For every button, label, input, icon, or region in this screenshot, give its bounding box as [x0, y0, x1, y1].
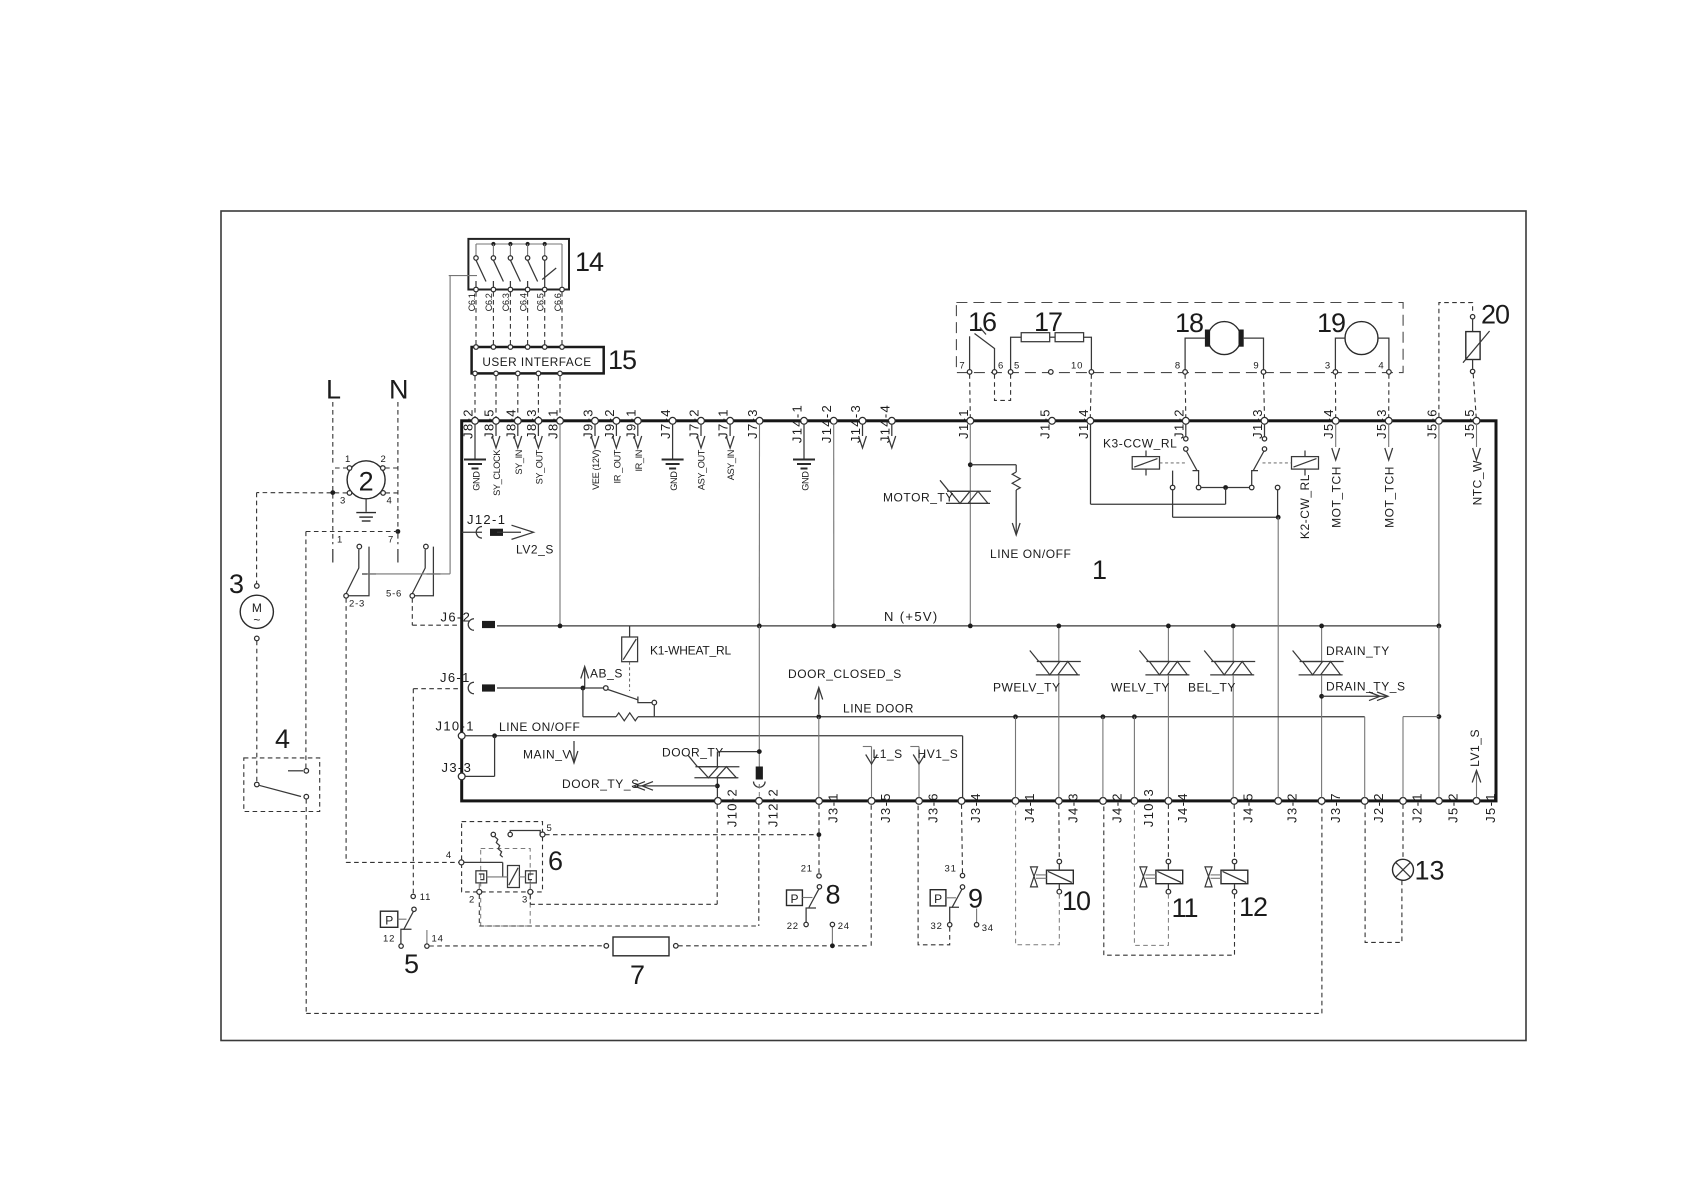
- wire pin4 to N: [385, 492, 398, 494]
- wire throws to J3-2: [1172, 490, 1174, 518]
- wire J7-3 down: [758, 424, 760, 626]
- signal DOOR_TY_S: [637, 785, 717, 787]
- pump 3 body: [240, 595, 273, 628]
- svg-text:L1_S: L1_S: [873, 747, 903, 761]
- pin 2: [381, 466, 386, 471]
- pin mid of motor unit: [1049, 370, 1054, 375]
- svg-text:C6.1: C6.1: [467, 293, 477, 311]
- wire J4-3 to valve 10: [1058, 804, 1061, 859]
- resistor 7: [604, 944, 609, 949]
- wire pin7 to J1-1: [969, 374, 972, 417]
- wire module pin3 to J10-2: [529, 894, 531, 904]
- wire LINE DOOR to J10-3: [1133, 717, 1135, 798]
- signal IR_IN: [637, 424, 639, 436]
- keyboard bus junction: [508, 242, 512, 246]
- motor unit enclosure: [956, 303, 1403, 373]
- switch 4 lower contact: [304, 794, 309, 799]
- suppressor 2 body: [347, 461, 385, 499]
- triac PWELV_TY: [1058, 626, 1060, 662]
- svg-text:11: 11: [420, 892, 431, 903]
- wire resistor 7 to J3-5 net: [678, 945, 868, 947]
- triac BEL_TY: [1232, 626, 1234, 662]
- svg-text:21: 21: [801, 864, 813, 875]
- svg-text:J4-4: J4-4: [1175, 792, 1190, 823]
- svg-text:3: 3: [340, 496, 346, 507]
- UI top pin: [560, 345, 565, 350]
- wire valve 11 to J10-3: [1134, 804, 1168, 945]
- node N tap: [396, 529, 401, 534]
- key switch S4: [527, 244, 529, 256]
- key switch S3: [509, 244, 511, 256]
- pin 5 of motor unit: [1008, 370, 1013, 375]
- svg-text:C6.5: C6.5: [536, 293, 546, 311]
- svg-text:J1-4: J1-4: [1076, 408, 1091, 439]
- svg-text:31: 31: [945, 864, 957, 875]
- gnd at J14-1: [803, 424, 805, 459]
- svg-text:J1-1: J1-1: [956, 408, 971, 439]
- pin J7-1: [727, 417, 734, 424]
- wire NTC to J5-5: [1473, 374, 1476, 418]
- UI bottom pin: [516, 371, 521, 376]
- svg-text:J9-1: J9-1: [623, 408, 638, 439]
- keyboard pin C6.5: [542, 287, 547, 292]
- contact K3 from J1-2: [1185, 424, 1187, 437]
- svg-text:K3-CCW_RL: K3-CCW_RL: [1103, 437, 1177, 451]
- svg-text:34: 34: [982, 923, 994, 934]
- switch 9 contact 34: [976, 909, 978, 923]
- contact K2 from J1-3: [1264, 424, 1266, 437]
- ground of suppressor 2: [365, 499, 367, 512]
- wire valve 10 to J4-1: [1016, 804, 1060, 945]
- UI top pin: [542, 345, 547, 350]
- pin J8-1: [557, 417, 564, 424]
- wire pin4 to J5-3: [1388, 374, 1390, 417]
- svg-text:J14-3: J14-3: [848, 404, 863, 443]
- pin J5-2: [1436, 798, 1443, 805]
- heater relay parts in 6: [476, 871, 487, 883]
- pin J14-1: [801, 417, 808, 424]
- svg-text:J7-4: J7-4: [658, 408, 673, 439]
- svg-text:J9-3: J9-3: [581, 408, 596, 439]
- switch 8 contact 21: [817, 874, 821, 878]
- UI bottom pin: [536, 371, 541, 376]
- svg-text:GND: GND: [471, 471, 481, 491]
- svg-text:3: 3: [1325, 361, 1331, 372]
- relay coil K1-WHEAT_RL: [629, 626, 631, 637]
- keyboard pin C6.3: [508, 287, 513, 292]
- wire pump to switch 4: [256, 641, 258, 783]
- svg-text:K1-WHEAT_RL: K1-WHEAT_RL: [650, 644, 731, 658]
- svg-text:9: 9: [968, 884, 983, 914]
- signal SY_IN: [517, 424, 519, 436]
- svg-text:P: P: [934, 892, 942, 906]
- signal NTC_W: [1476, 424, 1478, 447]
- keyboard pin C6.2: [491, 287, 496, 292]
- net N +5V: [497, 625, 1439, 627]
- wire J4-4 to valve 11: [1167, 804, 1169, 859]
- signal MOT_TCH J5-3: [1388, 424, 1390, 447]
- N feed stub: [397, 549, 399, 563]
- svg-text:MOT_TCH: MOT_TCH: [1383, 466, 1397, 528]
- signal LV1_S: [1476, 771, 1478, 798]
- svg-text:J8-1: J8-1: [546, 408, 561, 439]
- contact throw right: [1275, 485, 1280, 490]
- wire common to J1-4: [1225, 488, 1227, 505]
- pin J1-5: [1049, 417, 1056, 424]
- signal SY_CLOCK: [495, 424, 497, 436]
- svg-text:J5-4: J5-4: [1321, 408, 1336, 439]
- net LINE ON/OFF: [465, 735, 962, 737]
- svg-text:DOOR_TY: DOOR_TY: [662, 746, 724, 760]
- pin J3-2: [1275, 798, 1282, 805]
- svg-text:2: 2: [380, 454, 386, 465]
- pin J5-5: [1473, 417, 1480, 424]
- svg-text:J7-1: J7-1: [716, 408, 731, 439]
- net LINE DOOR: [654, 716, 1364, 718]
- triac WELV_TY: [1167, 626, 1169, 662]
- svg-text:~: ~: [253, 613, 260, 627]
- wire J3-1 to switch 8: [818, 804, 820, 873]
- pressure switch 5 contact 14: [426, 930, 428, 944]
- svg-text:LV2_S: LV2_S: [516, 543, 554, 557]
- signal arrow J14-3: [862, 424, 864, 436]
- svg-text:P: P: [385, 914, 393, 928]
- svg-text:12: 12: [383, 934, 395, 945]
- signal DOOR_CLOSED_S: [818, 689, 820, 714]
- interlock switch 5-6 contact top: [424, 544, 429, 549]
- pin J8-5: [493, 417, 500, 424]
- signal LV2_S: [497, 531, 521, 533]
- node L tap: [330, 490, 335, 495]
- heater module 6 enclosure: [462, 822, 543, 892]
- pin J8-3: [535, 417, 542, 424]
- switch 8 pressure sensor: [787, 890, 803, 906]
- svg-text:DOOR_CLOSED_S: DOOR_CLOSED_S: [788, 667, 902, 681]
- wires user interface to board J8: [474, 376, 476, 417]
- pin J7-2: [698, 417, 705, 424]
- keyboard block 14 outline: [468, 239, 569, 290]
- svg-text:J6-1: J6-1: [440, 670, 471, 685]
- wire valve 12 to J4-2: [1104, 804, 1235, 955]
- svg-text:GND: GND: [669, 471, 679, 491]
- pin 7 of motor unit: [967, 370, 972, 375]
- svg-text:J8-2: J8-2: [461, 408, 476, 439]
- switch 4 blade: [259, 785, 301, 796]
- pin 1: [347, 466, 352, 471]
- svg-text:C6.2: C6.2: [484, 293, 494, 311]
- key switch S2: [492, 244, 494, 256]
- pin J4-3: [1055, 798, 1062, 805]
- svg-text:J7-2: J7-2: [687, 408, 702, 439]
- svg-text:J3-1: J3-1: [826, 792, 841, 823]
- svg-text:J3-5: J3-5: [878, 792, 893, 823]
- svg-text:SY_IN: SY_IN: [514, 450, 524, 475]
- pin J4-5: [1231, 798, 1238, 805]
- svg-text:22: 22: [787, 921, 799, 932]
- switch 8 blade: [809, 889, 819, 908]
- svg-text:14: 14: [575, 247, 604, 277]
- wire J5-6 to NTC top: [1439, 303, 1473, 418]
- svg-text:J8-4: J8-4: [503, 408, 518, 439]
- wire LINE DOOR to J4-2: [1102, 717, 1104, 798]
- wire J1-1 down to N: [969, 424, 971, 626]
- wire pin3 to motor feed: [257, 492, 348, 494]
- node J6-1 tap: [581, 686, 586, 691]
- svg-text:J5-3: J5-3: [1374, 408, 1389, 439]
- contact K1: [604, 686, 609, 691]
- svg-text:J4-2: J4-2: [1110, 792, 1125, 823]
- svg-text:J10-3: J10-3: [1141, 788, 1156, 827]
- svg-text:J10-1: J10-1: [436, 719, 475, 734]
- pin 4: [381, 491, 386, 496]
- svg-text:J8-5: J8-5: [482, 408, 497, 439]
- wire door triac top to J7-3 line: [716, 752, 718, 767]
- svg-text:J5-5: J5-5: [1462, 408, 1477, 439]
- svg-text:J12-1: J12-1: [467, 512, 506, 527]
- svg-text:DRAIN_TY_S: DRAIN_TY_S: [1326, 680, 1406, 694]
- wire J2-1 to lamp: [1402, 804, 1404, 859]
- wire loop with resistor: [582, 688, 584, 717]
- pin J14-3: [859, 417, 866, 424]
- svg-text:J7-3: J7-3: [745, 408, 760, 439]
- wire switch 4 to J3-7 bottom rail: [306, 1012, 1322, 1014]
- svg-text:LINE ON/OFF: LINE ON/OFF: [990, 547, 1071, 561]
- wire pin8 to J1-2: [1184, 374, 1187, 417]
- pump 3 bottom terminal: [254, 636, 259, 641]
- svg-text:J1-3: J1-3: [1250, 408, 1265, 439]
- svg-text:L: L: [326, 375, 341, 405]
- lamp 13: [1393, 859, 1414, 880]
- wire N to drain pump loop: [306, 531, 398, 533]
- wire J8-1 to N: [559, 424, 561, 626]
- UI top pin: [491, 345, 496, 350]
- wire J2-1 to LV1_S net: [1402, 717, 1404, 798]
- svg-text:LINE DOOR: LINE DOOR: [843, 702, 914, 716]
- svg-text:IR_IN: IR_IN: [634, 450, 644, 472]
- svg-text:C6.6: C6.6: [553, 293, 563, 311]
- wire module pin2 to J12-2: [478, 894, 480, 926]
- svg-text:ASY_OUT: ASY_OUT: [697, 449, 707, 490]
- main control board outline: [462, 421, 1496, 801]
- svg-text:LINE ON/OFF: LINE ON/OFF: [499, 720, 580, 734]
- gnd at J7-4: [672, 424, 674, 459]
- svg-text:3: 3: [229, 569, 244, 599]
- switch 8 contact 24: [830, 922, 834, 926]
- svg-text:J14-2: J14-2: [819, 404, 834, 443]
- wire J4-5 to valve 12: [1233, 804, 1235, 859]
- interlock switch 2-3: [346, 550, 359, 594]
- svg-text:7: 7: [630, 960, 645, 990]
- signal ASY_IN: [729, 424, 731, 436]
- module pin 2: [477, 889, 482, 894]
- valve 12: [1221, 870, 1248, 884]
- pin J3-1: [816, 798, 823, 805]
- triac MOTOR_TY: [947, 490, 991, 492]
- svg-text:J6-2: J6-2: [441, 610, 472, 625]
- signal SY_OUT: [537, 424, 539, 436]
- svg-text:ASY_IN: ASY_IN: [726, 450, 736, 480]
- signal ASY_OUT: [700, 424, 702, 436]
- connector symbol J12-2: [756, 767, 763, 780]
- svg-text:4: 4: [446, 850, 452, 861]
- signal arrow J14-4: [891, 424, 893, 436]
- svg-text:MOT_TCH: MOT_TCH: [1330, 466, 1344, 528]
- svg-text:MAIN_V: MAIN_V: [523, 748, 571, 762]
- signal DRAIN_TY_S: [1319, 694, 1324, 699]
- svg-text:13: 13: [1415, 856, 1445, 886]
- signal L1_S: [871, 747, 873, 798]
- pin J10-2: [715, 798, 722, 805]
- pin J12-2: [756, 798, 763, 805]
- svg-text:5: 5: [547, 823, 553, 834]
- svg-text:6: 6: [998, 361, 1004, 372]
- gnd at J8-2: [474, 424, 476, 459]
- pressure switch 5 contact 11: [411, 894, 415, 898]
- svg-text:J12-2: J12-2: [766, 788, 781, 827]
- svg-text:N (+5V): N (+5V): [884, 609, 939, 624]
- L feed stub: [332, 549, 334, 563]
- pin J1-1: [967, 417, 974, 424]
- wire N: [397, 402, 399, 529]
- wire J14-2 to N: [833, 424, 835, 626]
- svg-text:J14-4: J14-4: [877, 404, 892, 443]
- pin J1-2: [1182, 417, 1189, 424]
- svg-text:DRAIN_TY: DRAIN_TY: [1326, 644, 1390, 658]
- pin 4 of motor unit: [1387, 370, 1392, 375]
- svg-text:5: 5: [1014, 361, 1020, 372]
- svg-text:J1-2: J1-2: [1171, 408, 1186, 439]
- svg-text:NTC_W: NTC_W: [1471, 460, 1485, 506]
- svg-text:N: N: [389, 375, 409, 405]
- svg-text:12: 12: [1239, 892, 1267, 922]
- pin 3: [347, 491, 352, 496]
- svg-text:15: 15: [608, 345, 636, 375]
- valve 10: [1047, 870, 1074, 884]
- svg-text:J3-4: J3-4: [968, 792, 983, 823]
- key switch S5: [544, 244, 546, 256]
- svg-text:4: 4: [386, 496, 392, 507]
- svg-text:1: 1: [345, 454, 351, 465]
- pin J2-2: [1361, 798, 1368, 805]
- svg-text:VEE (12V): VEE (12V): [591, 450, 601, 490]
- wire lamp to J2-2: [1365, 804, 1402, 942]
- switch 4 upper contact: [304, 769, 309, 774]
- wire J3-5 drop: [870, 804, 872, 946]
- switch 9 contact 31: [960, 873, 964, 877]
- wire pin3 to J5-4: [1334, 374, 1336, 417]
- wire pin10 to J1-4: [1090, 374, 1091, 417]
- triac DOOR_TY: [695, 766, 739, 768]
- wire pin4 into module: [464, 861, 503, 863]
- svg-text:2: 2: [469, 895, 475, 906]
- pin 9 of motor unit: [1261, 370, 1266, 375]
- svg-text:J14-1: J14-1: [790, 404, 805, 443]
- wire J5-6 down: [1438, 424, 1440, 626]
- pin J14-2: [830, 417, 837, 424]
- svg-text:LV1_S: LV1_S: [1468, 729, 1482, 767]
- keyboard pin C6.6: [560, 287, 565, 292]
- pressure switch 5 blade: [404, 911, 414, 929]
- pin J1-4: [1087, 417, 1094, 424]
- wire module pin5 to J3-1 net: [545, 834, 817, 836]
- svg-text:10: 10: [1062, 886, 1090, 916]
- wire interlock to keyboard common: [367, 573, 450, 575]
- pin J7-4: [669, 417, 676, 424]
- wire J3-3 to LINE ON/OFF: [465, 775, 495, 777]
- wire down to motor 3: [256, 493, 258, 584]
- svg-text:5-6: 5-6: [386, 589, 402, 600]
- pin 3 of motor unit: [1333, 370, 1338, 375]
- drawing frame: [221, 211, 1526, 1041]
- svg-text:SY_CLOCK: SY_CLOCK: [492, 449, 502, 496]
- wire 32 to J3-6: [918, 804, 950, 945]
- pin J9-1: [634, 417, 641, 424]
- switch 9 contact 32: [948, 923, 952, 927]
- svg-text:11: 11: [1172, 893, 1198, 923]
- pin J7-3: [756, 417, 763, 424]
- wire 2-3 switch to heater module pin 4: [345, 598, 347, 862]
- svg-text:USER INTERFACE: USER INTERFACE: [482, 355, 591, 369]
- signal HV1_S: [918, 747, 920, 798]
- pin J8-4: [514, 417, 521, 424]
- svg-text:1: 1: [1092, 555, 1107, 585]
- wire LINE DOOR to J2-2: [1364, 717, 1366, 798]
- pressure switch 5 sensor: [380, 911, 397, 927]
- svg-text:J3-2: J3-2: [1285, 792, 1300, 823]
- wire J3-4 to switch 9: [962, 804, 963, 873]
- svg-text:32: 32: [931, 921, 943, 932]
- pin J5-6: [1436, 417, 1443, 424]
- svg-text:J3-6: J3-6: [926, 792, 941, 823]
- wire pin3 up to relay: [529, 883, 531, 889]
- UI top pin: [508, 345, 513, 350]
- key switch S1: [475, 244, 477, 256]
- svg-text:J3-3: J3-3: [442, 760, 473, 775]
- wires keyboard to user interface: [475, 292, 477, 345]
- pin J9-2: [613, 417, 620, 424]
- contact throw left: [1172, 471, 1174, 486]
- switch 4 enclosure: [244, 758, 320, 812]
- pin J5-3: [1385, 417, 1392, 424]
- switch 9 pressure sensor: [930, 890, 946, 906]
- gate resistor branch: [970, 464, 1016, 466]
- svg-text:J8-3: J8-3: [524, 408, 539, 439]
- wire pin2 up to relay: [478, 883, 480, 889]
- svg-text:3: 3: [522, 895, 528, 906]
- pin 6 of motor unit: [992, 370, 997, 375]
- svg-text:P: P: [790, 892, 798, 906]
- valve 11: [1156, 870, 1183, 884]
- UI top pin: [474, 345, 479, 350]
- module pin 4: [459, 860, 464, 865]
- svg-text:5: 5: [404, 949, 419, 979]
- pin J14-4: [888, 417, 895, 424]
- signal MOT_TCH J5-4: [1335, 424, 1337, 447]
- svg-text:J3-7: J3-7: [1328, 792, 1343, 823]
- svg-text:GND: GND: [800, 471, 810, 491]
- thermostat contact in 6: [491, 832, 495, 836]
- svg-text:PWELV_TY: PWELV_TY: [993, 681, 1061, 695]
- pin J9-3: [592, 417, 599, 424]
- wire L: [332, 402, 334, 466]
- pin J10-3: [1131, 798, 1138, 805]
- svg-text:J4-1: J4-1: [1022, 792, 1037, 823]
- svg-text:J5-1: J5-1: [1483, 792, 1498, 823]
- svg-text:4: 4: [1378, 361, 1384, 372]
- svg-text:1: 1: [337, 535, 343, 546]
- UI top pin: [525, 345, 530, 350]
- wire pin9 to J1-3: [1264, 374, 1265, 417]
